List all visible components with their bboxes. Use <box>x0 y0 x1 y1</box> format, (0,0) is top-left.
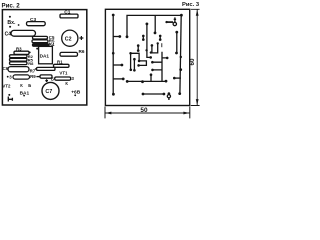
printed circuit board outline (fig 3) <box>105 9 189 105</box>
svg-text:C7: C7 <box>45 89 52 95</box>
node pad on T7 y69.6 <box>179 68 182 71</box>
node pad on T3 mid <box>145 49 147 51</box>
node pad end branch y57.9 <box>166 57 169 60</box>
svg-text:R9: R9 <box>30 74 36 79</box>
wire jumper x160 <box>159 36 161 40</box>
wire trace T10 vertical x162 with branches <box>153 52 167 82</box>
node hole tick top <box>174 17 176 22</box>
node pad jumper x160 bottom <box>159 38 162 41</box>
svg-text:R6: R6 <box>79 49 85 54</box>
node junction pad on T1 <box>112 52 115 55</box>
node + polarity of C2 <box>79 36 83 40</box>
wire branch T7 left at y78 <box>175 77 181 79</box>
node dot under +6B <box>74 94 76 96</box>
wire trace T6 vertical <box>176 32 178 53</box>
wire jumper x134 <box>133 59 135 70</box>
transistor VT1 body <box>55 77 71 80</box>
node pad T2 bottom end <box>126 35 129 38</box>
svg-text:Вх.: Вх. <box>7 20 16 26</box>
resistor R3 <box>14 51 29 54</box>
node pad end of branch y78 <box>173 77 176 80</box>
op-amp DA1 <box>39 46 53 63</box>
node pad end branch y62.2 <box>151 61 154 64</box>
node pad jumper x160 top <box>159 35 162 38</box>
wire branch T1 y65 <box>113 64 121 66</box>
wire jumper x138 <box>137 46 139 51</box>
node pad T8 end <box>157 42 159 44</box>
node junction pad on T12 <box>141 80 144 83</box>
resistor R5 (middle stack) <box>32 40 48 43</box>
node pad end of x155 branch <box>154 32 157 35</box>
board outline (component side, fig 2) <box>2 10 86 105</box>
dimension 60 line <box>196 10 198 106</box>
wire trace T8 bracket <box>152 43 158 53</box>
dimension 50 left arrow <box>105 112 111 115</box>
resistor R4 <box>33 44 49 47</box>
resistor R6 <box>60 52 78 56</box>
ground <box>8 97 12 102</box>
dimension 60 extension lines <box>191 9 200 105</box>
node Вх input dot lower <box>9 26 11 28</box>
capacitor C1 <box>60 14 78 18</box>
svg-text:VT1: VT1 <box>59 71 68 76</box>
resistor R8 <box>10 62 28 65</box>
node pad end branch y69.9 <box>151 69 154 72</box>
node dot right of R3 <box>29 52 31 54</box>
svg-text:VT2: VT2 <box>2 83 11 88</box>
svg-text:З: З <box>71 76 74 81</box>
node pad T1 bottom <box>112 93 115 96</box>
svg-text:C4: C4 <box>5 32 12 38</box>
node pad T11 corner <box>138 60 141 63</box>
node hole circle bottom <box>167 95 170 98</box>
node pad stub top <box>150 73 153 76</box>
capacitor C4 <box>11 30 36 36</box>
dimension 60 top arrow <box>196 10 199 16</box>
wire branch T1 y79 <box>113 78 123 80</box>
wire trace T3 from pad down then right <box>147 24 151 58</box>
node pad T12 right <box>165 80 168 83</box>
node pad T2 right end <box>180 14 183 17</box>
node pad end branch y79 <box>122 78 125 81</box>
wire stub from T12 up x151 <box>150 75 152 82</box>
svg-text:C2: C2 <box>65 36 72 42</box>
node junction pad T11 <box>129 52 132 55</box>
node pad jumper x138 bottom <box>137 49 140 52</box>
wire faint stub x162 top <box>161 43 163 47</box>
node pad jumper x143 bottom <box>142 38 145 41</box>
capacitor C2 <box>62 30 78 46</box>
resistor divider rect after R9 <box>40 75 52 78</box>
wire trace T7 right vertical <box>180 15 181 94</box>
wire trace T13 horizontal y94 <box>143 93 164 95</box>
svg-text:R8: R8 <box>28 61 34 66</box>
node lone pad x151 <box>150 51 152 53</box>
node pad T3 top <box>146 23 149 26</box>
node hole circle top <box>173 22 176 25</box>
node pad T8 start <box>151 44 154 47</box>
resistor R2 <box>10 55 28 58</box>
wire trace T12 horizontal y81.4 <box>127 80 166 82</box>
node pad jumper x134 bottom <box>133 69 136 72</box>
svg-text:Б: Б <box>28 83 31 88</box>
node pad T7 bottom <box>178 92 181 95</box>
capacitor C7 <box>42 82 59 99</box>
wire trace T11 with U shape <box>131 53 147 70</box>
wire branch T1 y36.5 <box>113 36 119 38</box>
node pad T12 left <box>126 80 129 83</box>
wire jumper x143 <box>142 36 144 40</box>
dimension 50 right arrow <box>183 112 189 115</box>
capacitor C3 <box>27 22 46 26</box>
svg-text:+6В: +6В <box>71 89 81 95</box>
node pad T6 top <box>175 31 178 34</box>
capacitor C6 <box>8 67 29 72</box>
wire trace T1 vertical left <box>112 15 114 94</box>
wire R9 to VT1 divider <box>36 76 40 78</box>
wire trace T14 top with hole symbol <box>166 21 173 23</box>
node pad T3 end <box>149 56 152 59</box>
node pad end branch y36.5 <box>118 35 121 38</box>
svg-text:Рис. 3: Рис. 3 <box>182 2 200 8</box>
node pad end branch y65 <box>121 64 124 67</box>
svg-text:60: 60 <box>189 58 196 65</box>
node pad T14 left <box>165 21 167 23</box>
resistor R1 <box>54 64 70 67</box>
dimension 50 extension lines <box>105 107 190 119</box>
wire trace T2 top long with corner <box>127 15 181 36</box>
node dot under BA1 <box>23 95 25 97</box>
node pad jumper x143 top <box>142 35 145 38</box>
resistor R5 (left stack) <box>10 58 28 61</box>
node pad T11 U end <box>137 64 140 67</box>
svg-text:50: 50 <box>140 107 148 114</box>
svg-text:Б: Б <box>51 76 54 81</box>
node DA1 pin mark <box>36 48 38 50</box>
dimension 60 bottom arrow <box>196 99 199 105</box>
node hole stem bottom <box>168 98 170 100</box>
wire branch T2 down at x155 <box>154 15 156 32</box>
node hole symbol bottom <box>168 92 171 95</box>
node pad jumper x138 top <box>137 44 140 47</box>
node dot right of Вх <box>18 24 20 26</box>
dimension 50 line <box>105 112 189 114</box>
capacitor C5 <box>33 36 48 39</box>
node dot pin 3 <box>7 76 9 78</box>
resistor R9 <box>13 75 30 79</box>
node pad T11 bottom <box>130 69 133 72</box>
node + polarity above C7 <box>45 79 48 82</box>
node pad jumper x134 top <box>133 58 136 61</box>
node pad on T7 y57 <box>180 56 182 58</box>
node pad T13 right <box>163 93 166 96</box>
resistor R7 <box>35 68 36 69</box>
svg-text:DA1: DA1 <box>40 54 50 59</box>
node pad T1 top <box>112 14 115 17</box>
node pad T13 left <box>142 93 145 96</box>
node Вх input dot upper <box>9 16 11 18</box>
node dot left bottom <box>8 94 10 96</box>
svg-text:Рис. 2: Рис. 2 <box>2 3 21 10</box>
node pad T6 bottom <box>175 52 178 55</box>
